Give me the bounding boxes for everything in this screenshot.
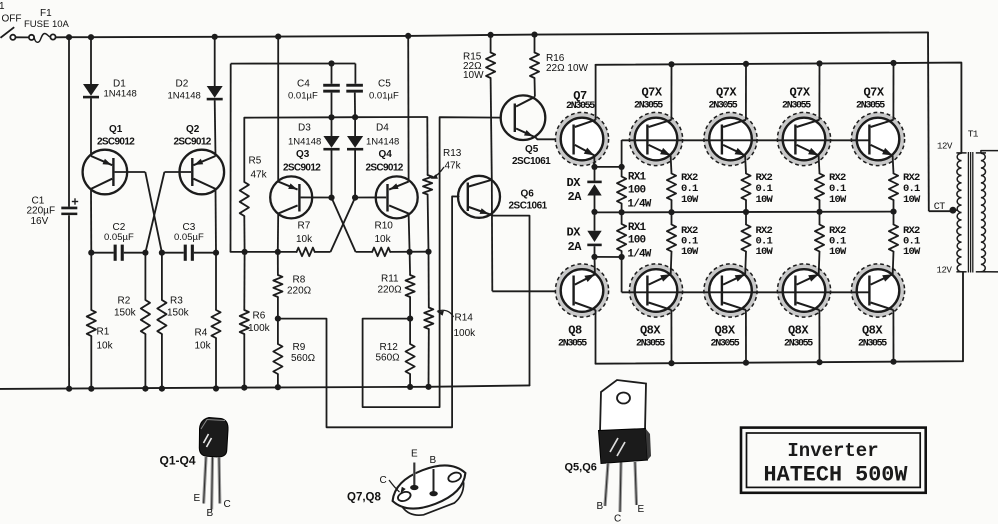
wire Q1 collector to C2 row xyxy=(90,189,92,253)
svg-text:220Ω: 220Ω xyxy=(287,286,312,297)
wire Q8 emitter lead xyxy=(594,257,596,274)
transistor Q2 2SC9012 xyxy=(174,124,225,194)
svg-text:OFF: OFF xyxy=(2,14,22,25)
svg-text:10W: 10W xyxy=(681,246,699,258)
wire C3 row xyxy=(159,250,219,256)
wire R15 to Q6 collector and Q8 base xyxy=(491,78,557,291)
svg-text:D3: D3 xyxy=(298,123,311,134)
resistor RX2 lower #2 0.1 10W xyxy=(741,212,773,258)
svg-text:10W: 10W xyxy=(903,194,921,206)
wire Q7X#3 emitter lead xyxy=(818,155,821,173)
resistor R13 47k xyxy=(423,117,462,252)
wire feedback R11/R12 junction to Q5 base xyxy=(363,117,501,407)
svg-text:Q1: Q1 xyxy=(109,124,123,135)
wire D1 branch xyxy=(90,37,92,84)
transistor Q7X#3 2N3055 (circle) xyxy=(777,112,830,165)
package drawing Q5,Q6 (TO-220) xyxy=(565,380,652,524)
capacitor C2 0.05uF xyxy=(104,222,134,261)
wire D2 to Q2 emitter xyxy=(214,100,217,156)
svg-text:1/4W: 1/4W xyxy=(627,199,651,211)
svg-text:47k: 47k xyxy=(251,170,268,181)
svg-text:Q3: Q3 xyxy=(296,149,310,160)
svg-text:C: C xyxy=(224,499,231,510)
wire Q4 emitter feed xyxy=(407,36,409,182)
svg-text:2N3055: 2N3055 xyxy=(858,339,887,350)
diode D1 1N4148 xyxy=(83,79,137,100)
wire Q4 collector lead xyxy=(409,214,410,252)
transistor Q8X#2 internals xyxy=(711,274,746,350)
svg-text:10W: 10W xyxy=(756,194,774,206)
transistor Q5 2SC1061 xyxy=(501,95,551,167)
capacitor C4 0.01uF xyxy=(288,79,340,102)
wire feedback R8/R9 junction to Q6 base xyxy=(278,196,459,427)
svg-text:10W: 10W xyxy=(829,194,847,206)
resistor R15 22ohm 10W xyxy=(463,35,495,81)
svg-text:220Ω: 220Ω xyxy=(378,285,403,296)
svg-text:2N3055: 2N3055 xyxy=(711,339,740,350)
svg-text:10k: 10k xyxy=(375,234,392,245)
resistor R9 560ohm xyxy=(273,319,315,391)
svg-text:12V: 12V xyxy=(937,142,953,152)
wire Q8X#1 emitter lead xyxy=(670,252,673,275)
svg-text:220µF: 220µF xyxy=(27,206,56,217)
svg-text:D4: D4 xyxy=(376,123,389,134)
wire Q3 collector lead xyxy=(277,214,279,252)
svg-text:R13: R13 xyxy=(443,148,462,159)
svg-text:560Ω: 560Ω xyxy=(376,353,401,364)
fuse F1 10A xyxy=(16,8,70,42)
wire Q8X#1 collector lead xyxy=(670,310,672,363)
svg-text:Q6: Q6 xyxy=(521,189,535,200)
svg-text:R6: R6 xyxy=(253,311,266,322)
wire Q8X#4 collector lead xyxy=(892,310,894,362)
svg-text:RX1: RX1 xyxy=(628,222,647,234)
wire Q7 emitter lead xyxy=(593,155,595,167)
svg-text:2N3055: 2N3055 xyxy=(558,339,587,350)
svg-text:2N3055: 2N3055 xyxy=(784,339,813,350)
svg-text:Q8: Q8 xyxy=(568,324,582,338)
svg-text:Q8X: Q8X xyxy=(714,324,735,338)
svg-text:2N3055: 2N3055 xyxy=(709,100,738,111)
svg-text:R7: R7 xyxy=(298,221,311,232)
wire Q7X#3 collector lead xyxy=(818,64,820,120)
node CT center tap xyxy=(934,202,958,214)
svg-text:22Ω 10W: 22Ω 10W xyxy=(546,63,589,74)
svg-text:F1: F1 xyxy=(40,8,52,19)
svg-text:10k: 10k xyxy=(296,234,313,245)
wire D1 to Q1 emitter xyxy=(90,98,92,156)
svg-text:0.05µF: 0.05µF xyxy=(104,232,134,243)
transistor Q7X#4 2N3055 (circle) xyxy=(851,112,904,165)
svg-text:R4: R4 xyxy=(195,328,208,339)
transistor Q7X#2 internals xyxy=(709,86,746,156)
resistor R1 10k xyxy=(87,253,114,392)
svg-text:B: B xyxy=(597,501,604,512)
svg-text:10W: 10W xyxy=(681,194,699,206)
svg-text:Q8X: Q8X xyxy=(862,324,883,338)
svg-text:2N3055: 2N3055 xyxy=(566,101,595,112)
wire oscillator node bus xyxy=(244,114,427,120)
wire R10 row right xyxy=(390,249,431,255)
svg-text:1N4148: 1N4148 xyxy=(366,137,399,148)
wire Q8X#2 emitter lead xyxy=(744,252,747,275)
svg-text:2A: 2A xyxy=(568,240,583,254)
svg-text:B: B xyxy=(430,455,437,466)
svg-text:CT: CT xyxy=(934,202,946,213)
resistor R8 220ohm xyxy=(273,252,311,322)
diode D3 1N4148 xyxy=(288,117,340,197)
wire Q7 collector rail to 12V top xyxy=(596,60,962,153)
svg-text:R3: R3 xyxy=(170,296,183,307)
svg-text:FUSE 10A: FUSE 10A xyxy=(24,19,70,30)
resistor R2 150k xyxy=(114,253,150,392)
wire center tap row xyxy=(595,209,897,216)
capacitor C3 0.05uF xyxy=(174,222,204,261)
svg-text:2SC9012: 2SC9012 xyxy=(366,163,404,174)
svg-text:560Ω: 560Ω xyxy=(291,353,316,364)
wire Q2 collector to C3 row xyxy=(215,189,218,253)
svg-text:R14: R14 xyxy=(455,313,474,324)
svg-text:R8: R8 xyxy=(293,275,306,286)
resistor RX2 upper #3 0.1 10W xyxy=(815,172,847,212)
diode DX lower 2A xyxy=(567,209,602,260)
svg-text:2N3055: 2N3055 xyxy=(634,100,663,111)
transistor Q4 2SC9012 xyxy=(366,149,418,218)
wire Q8 collector lead xyxy=(595,310,597,364)
wire Q7X base bus xyxy=(622,139,870,141)
wire C4/C5 top feed xyxy=(231,60,356,252)
wire Q7X#2 emitter lead xyxy=(744,155,747,173)
svg-text:E: E xyxy=(411,449,418,460)
svg-text:100: 100 xyxy=(628,185,646,197)
resistor RX2 lower #3 0.1 10W xyxy=(815,212,847,258)
svg-text:C: C xyxy=(614,514,621,524)
wire Q7X#4 collector lead xyxy=(892,63,894,120)
svg-text:100: 100 xyxy=(628,235,646,247)
transistor Q8 2N3055 (circle) xyxy=(555,264,608,317)
svg-text:Q5: Q5 xyxy=(525,144,539,155)
svg-text:2SC9012: 2SC9012 xyxy=(283,163,321,174)
svg-text:1/4W: 1/4W xyxy=(627,249,651,261)
resistor RX1 upper 100 1/4W xyxy=(617,140,652,212)
wire C1 branch xyxy=(66,37,72,392)
resistor RX1 lower 100 1/4W xyxy=(617,209,652,292)
wire R7 row left xyxy=(231,249,297,255)
svg-text:10W: 10W xyxy=(829,246,847,258)
svg-text:Q7X: Q7X xyxy=(863,86,884,100)
svg-text:R2: R2 xyxy=(118,296,131,307)
wire Q1 base cross-coupling xyxy=(115,172,162,253)
svg-text:C4: C4 xyxy=(297,79,310,90)
transistor Q7X#1 internals xyxy=(634,86,671,156)
svg-text:2SC9012: 2SC9012 xyxy=(97,137,135,148)
resistor R12 560ohm xyxy=(376,319,415,390)
transistor Q8X#3 internals xyxy=(784,274,819,350)
resistor RX2 upper #4 0.1 10W xyxy=(889,172,921,212)
svg-text:1N4148: 1N4148 xyxy=(168,91,201,102)
wire Q7X#4 emitter lead xyxy=(892,155,895,173)
transistor Q8X#4 2N3055 (circle) xyxy=(851,264,904,317)
svg-text:R10: R10 xyxy=(375,221,394,232)
package drawing Q7,Q8 (TO-3) xyxy=(347,449,474,524)
wire Q3 base to R10 diagonal xyxy=(332,198,373,252)
transistor Q1 2SC9012 xyxy=(83,124,136,194)
wire Q8X#3 collector lead xyxy=(818,310,820,362)
svg-text:Q5,Q6: Q5,Q6 xyxy=(565,462,597,474)
wire Q8 collector rail to 12V bottom xyxy=(596,272,964,366)
resistor R6 100k xyxy=(240,252,271,391)
svg-text:DX: DX xyxy=(567,226,582,240)
wire Q7 emitter junction to RX1 xyxy=(595,164,625,170)
wire R7 to Q4 base diagonal xyxy=(315,198,355,252)
wire bottom rail xyxy=(0,385,530,389)
capacitor C1 220uF 16V xyxy=(27,196,79,228)
resistor R14 100k xyxy=(424,252,476,390)
svg-text:HATECH 500W: HATECH 500W xyxy=(764,463,909,488)
svg-text:1N4148: 1N4148 xyxy=(104,89,137,100)
transistor Q8 internals xyxy=(558,274,595,349)
wire Q8 emitter junction to RX1 xyxy=(595,254,625,260)
svg-text:T1: T1 xyxy=(968,129,979,140)
transistor Q7X#2 2N3055 (circle) xyxy=(704,112,757,165)
svg-text:D2: D2 xyxy=(176,79,189,90)
transistor Q8X#3 2N3055 (circle) xyxy=(777,264,830,317)
svg-text:Q7X: Q7X xyxy=(716,86,737,100)
resistor RX2 lower #1 0.1 10W xyxy=(667,212,699,258)
svg-text:DX: DX xyxy=(567,176,582,190)
transistor Q7 2N3055 (circle) xyxy=(555,112,608,165)
wire Q2 base cross-coupling xyxy=(145,172,191,253)
transistor Q8X#4 internals xyxy=(858,274,893,350)
diode DX upper 2A xyxy=(567,164,602,212)
svg-text:RX1: RX1 xyxy=(628,172,647,184)
svg-text:16V: 16V xyxy=(31,216,49,227)
resistor R5 47k xyxy=(240,118,268,252)
package drawing Q1-Q4 (TO-92) xyxy=(160,418,231,520)
switch S1 (ON/OFF) xyxy=(0,1,22,40)
svg-text:100k: 100k xyxy=(454,328,477,339)
svg-text:10k: 10k xyxy=(97,341,114,352)
transistor Q3 2SC9012 xyxy=(270,149,321,218)
transistor Q8X#2 2N3055 (circle) xyxy=(704,264,757,317)
transformer T1 xyxy=(937,129,998,276)
wire Q8X#4 emitter lead xyxy=(892,252,895,275)
wire battery+ to transformer CT xyxy=(928,32,953,211)
wire C4/C5 bottom leads xyxy=(332,93,356,118)
svg-text:10k: 10k xyxy=(195,341,212,352)
wire C2 row xyxy=(88,250,148,256)
svg-text:1: 1 xyxy=(0,1,5,12)
wire Q7X#1 collector lead xyxy=(670,64,672,119)
transistor Q7X#3 internals xyxy=(782,86,819,156)
svg-text:12V: 12V xyxy=(937,266,953,276)
resistor R11 220ohm xyxy=(378,252,415,322)
wire Q6 emitter to ground rail xyxy=(493,216,530,386)
svg-text:2SC1061: 2SC1061 xyxy=(509,201,548,212)
transistor Q8X#1 2N3055 (circle) xyxy=(629,264,682,317)
svg-text:Q4: Q4 xyxy=(379,149,393,160)
wire top +12V rail xyxy=(56,31,928,40)
diode D2 1N4148 xyxy=(168,79,223,102)
svg-text:2N3055: 2N3055 xyxy=(636,339,665,350)
resistor RX2 lower #4 0.1 10W xyxy=(889,212,921,258)
wire D2 branch xyxy=(214,37,216,86)
svg-text:0.01µF: 0.01µF xyxy=(288,91,318,102)
svg-text:10W: 10W xyxy=(463,70,484,81)
svg-text:R11: R11 xyxy=(381,274,399,285)
wire Q8X#2 collector lead xyxy=(745,310,747,363)
svg-text:Q7X: Q7X xyxy=(641,86,662,100)
resistor R3 150k xyxy=(157,253,189,392)
resistor R16 22ohm 10W xyxy=(530,35,589,78)
svg-text:Q8X: Q8X xyxy=(788,324,809,338)
svg-text:0.01µF: 0.01µF xyxy=(369,91,399,102)
svg-text:R9: R9 xyxy=(293,342,306,353)
wire Q7X#2 collector lead xyxy=(745,64,747,120)
svg-text:E: E xyxy=(194,493,201,504)
svg-text:10W: 10W xyxy=(903,246,921,258)
svg-text:R1: R1 xyxy=(97,327,110,338)
wire Q7 collector lead xyxy=(595,65,597,120)
svg-text:R12: R12 xyxy=(380,342,399,353)
wire Q5 emitter to Q7 base xyxy=(536,137,572,139)
svg-text:10W: 10W xyxy=(756,246,774,258)
capacitor C5 0.01uF xyxy=(346,79,399,102)
svg-text:C: C xyxy=(380,475,387,486)
wire Q3 base / node D3 xyxy=(301,195,335,201)
wire Q8X#3 emitter lead xyxy=(818,252,821,275)
svg-text:2SC9012: 2SC9012 xyxy=(174,137,212,148)
svg-text:Inverter: Inverter xyxy=(787,440,878,462)
resistor R7 10k xyxy=(296,221,315,257)
svg-text:Q1-Q4: Q1-Q4 xyxy=(160,454,196,468)
wire R16 to Q5 collector xyxy=(534,78,536,97)
svg-text:1N4148: 1N4148 xyxy=(288,137,321,148)
transistor Q8X#1 internals xyxy=(636,274,671,350)
svg-text:2N3055: 2N3055 xyxy=(856,100,885,111)
title box Inverter HATECH 500W xyxy=(741,428,926,493)
resistor R4 10k xyxy=(195,253,221,392)
resistor RX2 upper #1 0.1 10W xyxy=(667,172,699,212)
wire Q4 base / node D4 xyxy=(352,195,386,201)
svg-text:B: B xyxy=(207,508,214,519)
svg-text:47k: 47k xyxy=(445,161,462,172)
wire Q7X#1 emitter lead xyxy=(670,155,673,173)
svg-text:Q7X: Q7X xyxy=(789,86,810,100)
transistor Q6 2SC1061 xyxy=(458,176,548,218)
svg-text:100k: 100k xyxy=(248,323,271,334)
svg-text:0.05µF: 0.05µF xyxy=(174,232,204,243)
svg-text:150k: 150k xyxy=(114,308,137,319)
svg-text:Q2: Q2 xyxy=(186,124,200,135)
transistor Q7X#4 internals xyxy=(856,86,893,156)
svg-text:Q7,Q8: Q7,Q8 xyxy=(347,492,381,504)
transistor Q7X#1 2N3055 (circle) xyxy=(629,112,682,165)
resistor RX2 upper #2 0.1 10W xyxy=(741,172,773,212)
svg-text:Q8X: Q8X xyxy=(640,324,661,338)
svg-text:C5: C5 xyxy=(378,79,391,90)
svg-text:E: E xyxy=(638,504,645,515)
transistor Q7 internals xyxy=(566,89,596,155)
resistor R10 10k xyxy=(372,221,393,257)
svg-text:2N3055: 2N3055 xyxy=(782,100,811,111)
svg-text:2A: 2A xyxy=(568,190,583,204)
svg-text:2SC1061: 2SC1061 xyxy=(512,156,551,167)
wire Q8X base bus xyxy=(622,291,870,293)
svg-text:150k: 150k xyxy=(167,308,190,319)
svg-text:R5: R5 xyxy=(249,156,262,167)
wire Q3 emitter feed xyxy=(277,37,279,182)
diode D4 1N4148 xyxy=(347,117,399,197)
